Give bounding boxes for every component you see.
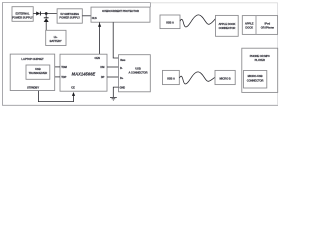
svg-text:DM: DM <box>100 65 104 69</box>
wire: USB transceiver to MAX TDP <box>50 76 60 78</box>
diode D2 (battery feed, pointing up) <box>44 18 49 22</box>
svg-text:USB: USB <box>135 67 141 71</box>
wire: diode D2 to battery box <box>45 22 47 30</box>
block: iPod/iPhone with apple dock port <box>242 16 277 35</box>
wire: MAX DM to USB A connector D- <box>107 66 119 68</box>
border corner stub <box>149 3 151 8</box>
svg-text:5V SWITCHING: 5V SWITCHING <box>60 12 79 16</box>
svg-text:LAPTOP CHIPSET: LAPTOP CHIPSET <box>21 57 44 61</box>
wire: GND stub <box>113 87 118 97</box>
svg-text:APPLE: APPLE <box>245 22 254 26</box>
wire: STANDBY from laptop chipset to MAX CE (arrow up) <box>38 91 73 102</box>
wire: junction down to diode D2 <box>45 14 47 18</box>
block: overcurrent protector <box>91 7 150 22</box>
block: USB A connector <box>119 55 151 92</box>
svg-text:USB A: USB A <box>167 76 175 80</box>
svg-text:GND: GND <box>120 86 126 90</box>
svg-text:CE: CE <box>71 86 75 90</box>
wire: 5V supply to overcurrent protector <box>82 15 91 17</box>
svg-text:BATTERY: BATTERY <box>50 39 62 43</box>
svg-text:DP: DP <box>101 75 105 79</box>
svg-text:CEN: CEN <box>95 56 100 60</box>
wire: MAX DP to USB A connector D+ <box>107 76 119 78</box>
wire: ext supply to diode D1 <box>33 13 36 15</box>
svg-text:Li+: Li+ <box>54 35 58 39</box>
svg-text:USB A: USB A <box>166 21 174 25</box>
svg-text:CONNECTOR: CONNECTOR <box>219 26 236 30</box>
block: USB transceiver <box>26 65 50 79</box>
svg-text:TDP: TDP <box>61 75 66 79</box>
svg-text:OVERCURRENT PROTECTOR: OVERCURRENT PROTECTOR <box>102 9 139 13</box>
svg-text:CONNECTOR: CONNECTOR <box>247 79 264 83</box>
block: MAX14566E <box>60 54 107 91</box>
svg-text:OR iPhone: OR iPhone <box>261 25 275 29</box>
svg-text:iPod: iPod <box>265 22 271 26</box>
svg-text:D+: D+ <box>120 76 124 80</box>
svg-text:TRANSCEIVER: TRANSCEIVER <box>29 71 48 75</box>
svg-text:EXTERNAL: EXTERNAL <box>16 12 30 16</box>
svg-text:PHONE OR MP3: PHONE OR MP3 <box>250 54 270 58</box>
svg-text:DOCK: DOCK <box>245 25 253 29</box>
svg-text:A CONNECTOR: A CONNECTOR <box>128 71 147 75</box>
svg-text:PLAYER: PLAYER <box>255 58 265 62</box>
svg-text:CLS: CLS <box>92 16 97 20</box>
block: phone/MP3 player with micro-USB port <box>242 48 278 92</box>
svg-text:D-: D- <box>120 66 123 70</box>
block: Li+ battery <box>46 30 66 45</box>
node: diode-OR junction <box>45 12 48 15</box>
block: micro B plug <box>215 70 235 84</box>
svg-text:POWER SUPPLY: POWER SUPPLY <box>59 16 80 20</box>
block: USB A plug (bottom) <box>163 70 180 84</box>
block: 5V switching power supply <box>57 9 82 23</box>
block: external power supply <box>12 7 33 22</box>
figure border (dark part: top-left, left, bottom) <box>3 3 279 106</box>
svg-text:USB: USB <box>35 67 41 71</box>
wire: USB transceiver to MAX TDM <box>50 66 60 68</box>
ground <box>110 97 117 100</box>
svg-text:STANDBY: STANDBY <box>27 86 39 90</box>
svg-text:MICRO-USB: MICRO-USB <box>248 74 263 78</box>
svg-text:POWER SUPPLY: POWER SUPPLY <box>12 15 33 19</box>
svg-text:APPLE DOCK: APPLE DOCK <box>218 22 235 26</box>
svg-text:MAX14566E: MAX14566E <box>72 72 96 77</box>
diode D1 (series, pointing right) <box>36 12 40 16</box>
wire: overcurrent protector down to VBUS <box>113 22 118 58</box>
block: apple dock connector (plug) <box>216 15 239 36</box>
figure border (faint top-right and right) <box>150 3 277 105</box>
block: USB A plug (top) <box>160 15 180 29</box>
cable: USB A to apple dock connector <box>180 15 215 27</box>
block: laptop chipset <box>10 54 55 90</box>
wire: MAX CEN up to overcurrent protector (arrow up) <box>99 22 101 54</box>
svg-text:TDM: TDM <box>61 65 66 69</box>
svg-text:MICRO B: MICRO B <box>220 76 231 80</box>
cable: USB A to micro B <box>180 72 215 84</box>
wire: diode D1 to 5V supply <box>40 13 57 15</box>
